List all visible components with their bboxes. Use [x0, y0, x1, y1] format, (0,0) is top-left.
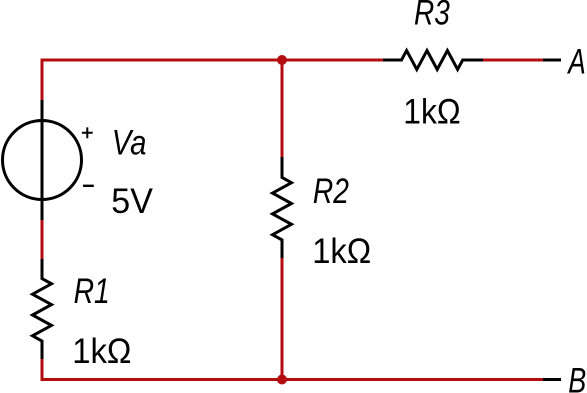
- svg-text:1kΩ: 1kΩ: [312, 232, 371, 271]
- terminal label B: [568, 362, 586, 393]
- wire: black terminal stub at A: [543, 59, 561, 62]
- voltage source Va: circle with line through, leads: [3, 100, 82, 220]
- polarity plus sign of source Va: [82, 127, 93, 138]
- node: junction dot at top middle node: [277, 55, 287, 65]
- svg-text:R1: R1: [74, 272, 110, 311]
- value label 1kOhm of R2: [312, 232, 371, 271]
- resistor R3 (horizontal zigzag, top branch): [383, 51, 483, 70]
- value label 5V: [111, 182, 153, 221]
- resistor R2 (vertical zigzag, middle branch): [273, 157, 292, 258]
- wire: middle vertical red from top node down to R2 top lead: [281, 60, 284, 157]
- node: junction dot at bottom middle node: [277, 375, 287, 385]
- wire: red segment between source bottom lead and R1 top lead: [41, 220, 44, 259]
- wire: black terminal stub at B: [543, 378, 561, 381]
- terminal label A: [567, 42, 586, 81]
- value label 1kOhm of R3: [403, 93, 460, 132]
- svg-text:A: A: [567, 42, 586, 81]
- svg-text:R3: R3: [414, 0, 450, 33]
- label Va: [112, 123, 147, 162]
- svg-text:R2: R2: [313, 172, 349, 211]
- wire: red from R1 bottom, down left rail and across bottom to terminal B: [42, 359, 543, 380]
- value label 1kOhm of R1: [72, 332, 131, 371]
- svg-text:1kΩ: 1kΩ: [72, 332, 131, 371]
- wire: red from R3 right lead to terminal A stub: [483, 59, 543, 62]
- label R1: [74, 272, 110, 311]
- svg-text:5V: 5V: [111, 182, 153, 221]
- resistor R1 (vertical zigzag, left rail): [33, 259, 52, 359]
- polarity minus sign of source Va: [83, 185, 94, 187]
- label R3: [414, 0, 450, 33]
- label R2: [313, 172, 349, 211]
- svg-text:1kΩ: 1kΩ: [403, 93, 460, 132]
- wire: top-left red wire from source top, up left rail and across top to R3: [42, 60, 383, 100]
- svg-text:Va: Va: [112, 123, 147, 162]
- wire: middle vertical red from R2 bottom lead down to bottom node: [281, 258, 284, 380]
- svg-text:B: B: [568, 362, 586, 393]
